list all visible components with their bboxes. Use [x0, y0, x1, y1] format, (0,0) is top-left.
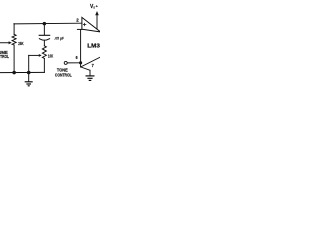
- svg-text:LM38: LM38: [87, 43, 100, 49]
- svg-text:NTROL: NTROL: [0, 54, 9, 59]
- svg-text:10K: 10K: [48, 53, 54, 58]
- svg-text:CONTROL: CONTROL: [55, 73, 72, 78]
- svg-text:.05 μF: .05 μF: [54, 36, 65, 40]
- svg-text:25K: 25K: [18, 41, 24, 46]
- svg-text:+: +: [96, 4, 99, 8]
- svg-text:6: 6: [76, 55, 79, 60]
- svg-text:2: 2: [76, 17, 79, 22]
- svg-text:S: S: [93, 6, 95, 10]
- svg-text:7: 7: [92, 63, 95, 68]
